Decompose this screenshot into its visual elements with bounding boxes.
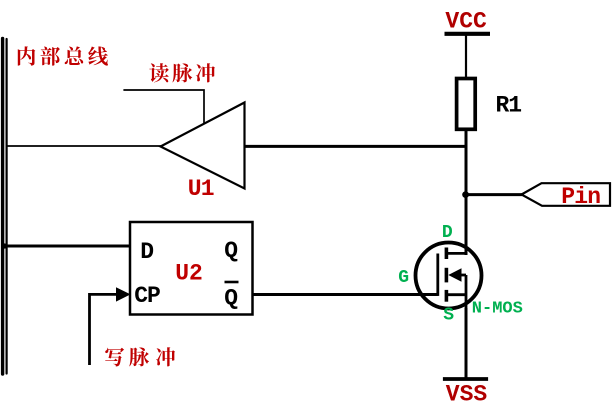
label 读脉冲: [149, 63, 215, 82]
wire U2 Q-bar output to MOSFET gate: [253, 293, 438, 296]
wire node to Pin connector: [466, 193, 522, 196]
wire R1 to MOSFET drain: [465, 129, 468, 255]
wire U1 input to drain node: [245, 145, 467, 148]
svg-text:VSS: VSS: [446, 381, 488, 407]
svg-text:Q: Q: [224, 286, 238, 312]
svg-text:U1: U1: [188, 176, 214, 202]
VCC supply bar: [445, 32, 491, 36]
transistor Q1 N-MOS: [416, 243, 482, 309]
node bus-D junction: [2, 243, 7, 248]
D flip-flop U2: [130, 222, 253, 315]
svg-text:S: S: [443, 306, 454, 326]
wire VCC to R1: [465, 36, 467, 79]
pin label Q-bar: [224, 282, 238, 312]
VSS ground bar: [443, 377, 488, 381]
svg-text:R1: R1: [496, 93, 522, 119]
svg-text:G: G: [398, 268, 409, 288]
wire bus to U1 output: [6, 145, 161, 147]
svg-text:U2: U2: [175, 260, 203, 286]
label 内部总线: [18, 46, 108, 65]
svg-text:D: D: [140, 239, 154, 265]
svg-text:Q: Q: [224, 238, 238, 264]
wire bus to U2 D input: [5, 245, 130, 248]
svg-text:Pin: Pin: [561, 184, 600, 210]
svg-text:CP: CP: [134, 283, 160, 309]
internal bus (double vertical line): [3, 39, 7, 375]
wire write-pulse to CP with arrowhead: [90, 294, 119, 365]
svg-text:D: D: [442, 223, 453, 243]
wire source to VSS: [465, 308, 468, 379]
connector Pin flag: [522, 183, 611, 206]
svg-text:N-MOS: N-MOS: [472, 300, 523, 319]
node Pin junction: [462, 191, 469, 198]
svg-text:VCC: VCC: [445, 9, 487, 35]
resistor R1: [457, 79, 476, 130]
label 写脉冲: [105, 347, 175, 366]
tri-state buffer U1: [161, 103, 245, 189]
wire read-pulse to U1 enable: [123, 90, 204, 124]
